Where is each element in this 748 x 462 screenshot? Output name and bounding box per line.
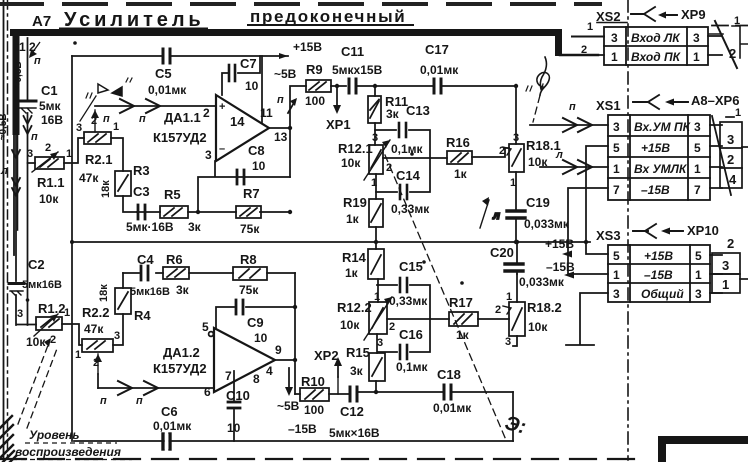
svg-text:–15В: –15В [641,183,670,197]
svg-text:1: 1 [613,162,620,176]
svg-text:75к: 75к [240,222,260,236]
svg-text:R7: R7 [243,186,260,201]
svg-text:1к: 1к [346,212,360,226]
svg-text:С19: С19 [526,195,550,210]
svg-text:3: 3 [694,120,701,134]
svg-text:0,01мк: 0,01мк [433,401,472,415]
svg-text:2: 2 [389,321,395,333]
svg-text:1: 1 [722,277,729,292]
svg-text:1к: 1к [454,167,468,181]
svg-text:3: 3 [372,132,378,144]
svg-text:2: 2 [203,106,210,120]
svg-text:1: 1 [695,268,702,282]
svg-text:С10: С10 [226,388,250,403]
svg-text:1: 1 [611,50,618,64]
svg-text:п: п [139,113,146,125]
svg-text:С8: С8 [248,143,265,158]
svg-text:100: 100 [305,94,325,108]
svg-text:1: 1 [587,21,593,33]
svg-text:0,33мк: 0,33мк [391,202,430,216]
svg-text:13: 13 [274,130,288,144]
svg-text:п: п [31,131,38,143]
svg-text:10к: 10к [528,155,548,169]
svg-text:3: 3 [114,330,120,342]
svg-text:0,33мк: 0,33мк [389,294,428,308]
svg-text:–: – [219,143,225,155]
svg-text:ХР2: ХР2 [314,348,339,363]
svg-text:0,01мк: 0,01мк [148,83,187,97]
svg-text:2: 2 [729,46,736,61]
svg-text:+: + [219,101,225,113]
svg-text:С20: С20 [490,245,514,260]
svg-text:3: 3 [611,31,618,45]
svg-text:С12: С12 [340,404,364,419]
svg-text:–15В: –15В [288,422,317,436]
svg-text:~5В: ~5В [274,67,297,81]
svg-text:2: 2 [93,357,99,369]
svg-text:1: 1 [613,268,620,282]
svg-text:ХS3: ХS3 [596,228,621,243]
svg-text:1: 1 [694,162,701,176]
svg-text:Вх УМЛК: Вх УМЛК [634,162,688,176]
svg-text:0,1мк: 0,1мк [391,142,424,156]
svg-text:10: 10 [245,79,259,93]
svg-text:R9: R9 [306,62,323,77]
svg-text:п: п [277,94,284,106]
svg-text:11: 11 [260,106,273,120]
svg-text:1: 1 [371,177,377,189]
svg-text:3: 3 [205,148,212,162]
svg-text:2: 2 [581,44,587,56]
svg-text:л: л [492,210,500,222]
svg-text:ХS2: ХS2 [596,9,621,24]
svg-text:2: 2 [386,162,392,174]
svg-text:3: 3 [613,287,620,301]
svg-text:0,1мк: 0,1мк [396,360,429,374]
svg-text:С3: С3 [133,184,150,199]
svg-text:R1.2: R1.2 [38,301,65,316]
svg-text:R15: R15 [346,345,370,360]
svg-text:2: 2 [50,334,56,346]
svg-text:R12.1: R12.1 [338,141,373,156]
svg-text:R2.1: R2.1 [85,152,112,167]
svg-text:R5: R5 [164,187,181,202]
svg-text:Уровень: Уровень [29,428,79,442]
svg-text:С16: С16 [399,327,423,342]
svg-text:0,033мк: 0,033мк [519,275,565,289]
svg-text:5мкх15В: 5мкх15В [332,63,383,77]
svg-text:С4: С4 [137,252,154,267]
svg-text:R2.2: R2.2 [82,305,109,320]
svg-text:~5В: ~5В [277,399,300,413]
svg-text:5: 5 [613,141,620,155]
svg-text:47к: 47к [79,171,99,185]
svg-text:75к: 75к [239,283,259,297]
svg-text:10к: 10к [340,318,360,332]
svg-text:1: 1 [693,50,700,64]
svg-text:18к: 18к [98,284,110,302]
svg-text:+15В: +15В [293,40,322,54]
svg-text:+15В: +15В [644,249,673,263]
svg-text:2: 2 [45,142,51,154]
svg-text:8: 8 [253,372,260,386]
svg-text:С17: С17 [425,42,449,57]
svg-text:А7: А7 [32,13,51,30]
svg-text:5: 5 [613,249,620,263]
svg-text:С11: С11 [341,44,364,59]
svg-text:0,01мк: 0,01мк [420,63,459,77]
svg-text:3: 3 [17,308,23,320]
svg-text:п: п [136,395,143,407]
svg-text:Усилитель: Усилитель [64,9,205,31]
svg-text:Вход ПК: Вход ПК [631,50,682,64]
svg-text:≈0,5В: ≈0,5В [13,61,24,88]
svg-text:R18.2: R18.2 [527,300,562,315]
svg-text:R19: R19 [343,195,367,210]
svg-text:R8: R8 [240,252,257,267]
svg-text:С15: С15 [399,259,423,274]
svg-text:3к: 3к [176,283,190,297]
svg-text:С1: С1 [41,83,58,98]
svg-text:3: 3 [722,258,729,273]
svg-text:С6: С6 [161,404,178,419]
svg-text:7: 7 [225,369,232,383]
svg-text:10к: 10к [39,192,59,206]
svg-text:3: 3 [505,336,511,348]
svg-text:10: 10 [254,331,268,345]
svg-text:3: 3 [27,148,33,160]
svg-text:А8–ХР6: А8–ХР6 [691,93,739,108]
svg-text:9: 9 [275,343,282,357]
svg-text:5: 5 [695,249,702,263]
svg-text:6: 6 [204,385,211,399]
svg-text:К157УД2: К157УД2 [153,130,207,145]
svg-text:R1.1: R1.1 [37,175,64,190]
svg-text:3: 3 [727,132,734,147]
svg-text:воспроизведения: воспроизведения [15,445,121,459]
svg-text:1: 1 [735,107,741,119]
svg-text:1: 1 [506,291,512,303]
svg-text:18к: 18к [100,180,112,198]
svg-text:С14: С14 [396,168,421,183]
svg-text:л: л [0,165,8,177]
svg-text:R17: R17 [449,295,473,310]
svg-text:С2: С2 [28,257,45,272]
svg-text:1к: 1к [456,328,470,342]
svg-text:3к: 3к [386,107,400,121]
svg-text:5мк×16В: 5мк×16В [329,426,380,440]
svg-text:2: 2 [727,236,734,251]
svg-text:предоконечный: предоконечный [250,7,406,26]
svg-text:R6: R6 [166,252,183,267]
svg-text:1: 1 [113,121,119,133]
svg-text:R3: R3 [133,163,150,178]
svg-text:R16: R16 [446,135,470,150]
svg-text:2: 2 [495,304,501,316]
svg-text:0,033мк: 0,033мк [524,217,570,231]
svg-text:7: 7 [613,183,620,197]
svg-text:К157УД2: К157УД2 [153,361,207,376]
svg-text:С9: С9 [247,315,264,330]
svg-text:10: 10 [252,159,266,173]
svg-text:100: 100 [304,403,324,417]
svg-text:п: п [103,113,110,125]
svg-text:4: 4 [729,172,737,187]
svg-text:10к: 10к [341,156,361,170]
svg-text:1: 1 [734,15,740,27]
svg-text:3: 3 [513,132,519,144]
svg-text:1: 1 [75,349,81,361]
svg-text:5мк16В: 5мк16В [22,279,62,291]
svg-text:5: 5 [694,141,701,155]
svg-text:С13: С13 [406,103,430,118]
svg-text:1: 1 [19,40,26,54]
svg-text:1: 1 [66,148,72,160]
svg-text:ХР9: ХР9 [681,7,706,22]
svg-text:3к: 3к [188,220,202,234]
svg-text:+15В: +15В [545,237,574,251]
svg-text:3: 3 [693,31,700,45]
svg-text:5мк·16В: 5мк·16В [126,220,174,234]
svg-text:Вход ЛК: Вход ЛК [631,31,681,45]
svg-text:5мк16В: 5мк16В [130,286,170,298]
svg-text:10: 10 [227,421,241,435]
svg-text:3к: 3к [350,364,364,378]
svg-text:Вх.УМ ПК: Вх.УМ ПК [634,120,692,134]
svg-text:3: 3 [377,337,383,349]
svg-text:5: 5 [202,320,209,334]
svg-text:1: 1 [510,177,516,189]
svg-text:ДА1.2: ДА1.2 [163,345,200,360]
svg-text:0,01мк: 0,01мк [153,419,192,433]
svg-text:47к: 47к [84,322,104,336]
svg-text:3: 3 [76,122,82,134]
svg-text:п: п [569,101,576,113]
svg-text:R10: R10 [301,374,325,389]
svg-text:л: л [555,149,563,161]
svg-text:п: п [34,55,41,67]
svg-text:2: 2 [91,115,97,127]
svg-text:+15В: +15В [641,141,670,155]
svg-text:ХР10: ХР10 [687,223,719,238]
svg-text:10к: 10к [528,320,548,334]
svg-text:R12.2: R12.2 [337,300,372,315]
svg-text:10к: 10к [26,335,46,349]
svg-text:2: 2 [727,152,734,167]
svg-text:2: 2 [499,145,505,157]
svg-text:С18: С18 [437,367,461,382]
svg-text:–15В: –15В [546,260,575,274]
svg-text:4: 4 [266,364,273,378]
svg-text:1: 1 [374,291,380,303]
svg-text:ДА1.1: ДА1.1 [164,110,201,125]
svg-text:7: 7 [694,183,701,197]
svg-text:R14: R14 [342,250,367,265]
svg-text:3: 3 [613,120,620,134]
svg-text:ХS1: ХS1 [596,98,621,113]
svg-text:14: 14 [230,114,245,129]
svg-text:С5: С5 [155,66,172,81]
svg-text:R4: R4 [134,308,151,323]
svg-text:п: п [100,395,107,407]
svg-text:≈0,5В: ≈0,5В [0,113,9,140]
svg-text:Общий: Общий [641,287,684,301]
svg-text:ХР1: ХР1 [326,117,351,132]
svg-text:–15В: –15В [644,268,673,282]
svg-text:1к: 1к [345,266,359,280]
svg-text:16В: 16В [41,113,63,127]
svg-text:3: 3 [695,287,702,301]
svg-text:С7: С7 [240,56,257,71]
svg-text:5мк: 5мк [39,99,62,113]
